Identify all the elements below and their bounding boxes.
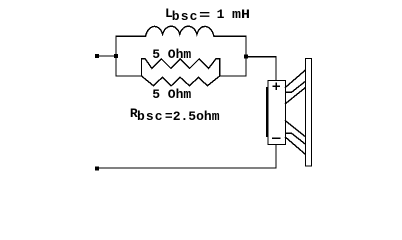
resistor R1 top 5 Ohm	[142, 59, 220, 76]
node junction right	[244, 55, 248, 59]
output terminal dot	[95, 167, 99, 171]
node junction left	[114, 54, 118, 58]
value label 5 Ohm (bottom resistor)	[152, 88, 191, 101]
speaker cone bottom lines	[286, 137, 306, 154]
label subscript bsc of resistor	[137, 110, 164, 123]
speaker cone mouth bar	[305, 58, 311, 165]
pin label - (speaker negative terminal)	[273, 137, 280, 139]
pin label + (speaker positive terminal)	[273, 85, 279, 87]
label subscript bsc of inductor	[172, 10, 199, 23]
wire to speaker	[246, 57, 276, 81]
wire left vertical	[115, 36, 117, 76]
wire speaker bottom	[97, 145, 276, 169]
input terminal dot	[95, 54, 99, 58]
wire input	[97, 55, 116, 57]
speaker SPK1 driver body	[268, 81, 286, 145]
resistor R2 bottom 5 Ohm	[142, 76, 220, 86]
speaker cone top lines	[286, 70, 306, 87]
wire top rail left	[116, 35, 145, 37]
wire resistor rail right	[220, 75, 246, 77]
value label 5 Ohm (top resistor)	[152, 48, 191, 61]
wire resistor rail left	[116, 75, 142, 77]
value label = 1 mH	[199, 9, 210, 22]
value label =2.5ohm	[165, 110, 220, 123]
inductor Lbsc	[146, 26, 215, 36]
label R designator of resistor pair	[130, 107, 138, 120]
wire right vertical	[245, 36, 247, 76]
label L designator of inductor	[165, 7, 173, 20]
speaker magnet strip	[266, 87, 268, 137]
wire top rail right	[214, 35, 246, 37]
